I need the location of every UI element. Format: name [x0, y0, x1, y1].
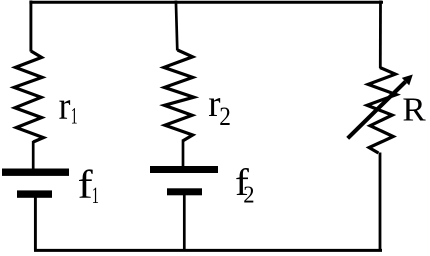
- svg-text:r: r: [59, 85, 71, 128]
- svg-text:1: 1: [92, 184, 99, 209]
- svg-text:1: 1: [71, 104, 78, 130]
- svg-text:2: 2: [243, 182, 254, 209]
- svg-text:R: R: [402, 92, 426, 128]
- svg-text:2: 2: [219, 103, 231, 132]
